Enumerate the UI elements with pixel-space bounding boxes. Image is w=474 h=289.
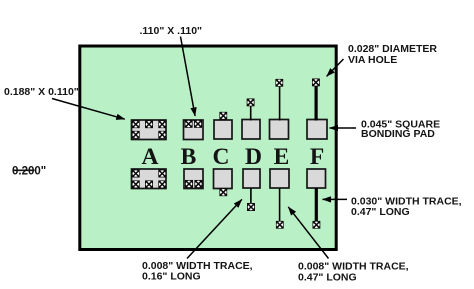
svg-text:VIA HOLE: VIA HOLE — [348, 54, 397, 66]
leader to via F top — [327, 59, 344, 76]
via B bottom-right — [194, 180, 202, 188]
svg-text:0.200": 0.200" — [12, 166, 46, 178]
via A bottom pad top-left — [132, 170, 140, 178]
pad E top — [270, 120, 289, 140]
via A mid-left — [132, 131, 140, 139]
board substrate — [80, 46, 336, 250]
via C bottom — [219, 188, 227, 196]
via D top — [247, 98, 255, 106]
leader to pad A top — [52, 99, 125, 120]
via B top-left — [185, 120, 193, 128]
via F bottom — [312, 221, 320, 229]
via E top — [275, 79, 283, 87]
pad B bottom — [184, 169, 203, 189]
svg-text:F: F — [310, 144, 324, 170]
via A bottom pad bottom-right — [158, 180, 166, 188]
leader to pad B top — [181, 37, 196, 117]
trace D top — [250, 105, 252, 121]
svg-text:0.47" LONG: 0.47" LONG — [351, 206, 410, 218]
via A top-right — [158, 120, 166, 128]
trace F top — [315, 86, 318, 121]
svg-text:E: E — [274, 144, 290, 170]
svg-text:C: C — [213, 144, 230, 170]
pad F bottom — [307, 169, 326, 188]
pad A top — [132, 120, 167, 140]
pad D top — [242, 120, 260, 140]
pad A bottom — [132, 169, 167, 189]
svg-text:0.188" X 0.110": 0.188" X 0.110" — [4, 86, 79, 98]
via A mid-right — [158, 131, 166, 139]
via B top-right — [194, 120, 202, 128]
via A bottom pad bottom-center — [145, 180, 153, 188]
pad D bottom — [243, 169, 260, 188]
pad F top — [307, 120, 327, 140]
leader to trace E bottom — [288, 207, 328, 259]
trace E bottom — [279, 188, 281, 222]
via F top — [312, 78, 320, 86]
svg-text:BONDING PAD: BONDING PAD — [361, 128, 435, 140]
trace D bottom — [250, 188, 252, 204]
via C top — [219, 112, 227, 120]
leader to pad F top — [330, 127, 357, 129]
via E bottom — [276, 221, 284, 229]
leader to trace F bottom — [323, 198, 348, 200]
svg-text:.110" X .110": .110" X .110" — [140, 25, 203, 37]
svg-text:0.16" LONG: 0.16" LONG — [142, 271, 201, 283]
svg-text:0.47" LONG: 0.47" LONG — [298, 272, 357, 284]
trace F bottom — [315, 188, 318, 222]
svg-text:B: B — [181, 144, 197, 170]
via B bottom-left — [185, 180, 193, 188]
svg-text:A: A — [142, 144, 159, 170]
via A top-center — [145, 120, 153, 128]
leader to trace D bottom — [187, 199, 242, 258]
pad E bottom — [270, 169, 289, 188]
via A bottom pad bottom-left — [132, 180, 140, 188]
via A top-left — [132, 120, 140, 128]
pad C top — [214, 120, 232, 139]
trace E top — [279, 86, 281, 121]
via D bottom — [247, 203, 255, 211]
svg-text:D: D — [245, 144, 262, 170]
pad C bottom — [214, 169, 233, 189]
pad B top — [184, 120, 204, 140]
via A bottom pad top-right — [158, 170, 166, 178]
